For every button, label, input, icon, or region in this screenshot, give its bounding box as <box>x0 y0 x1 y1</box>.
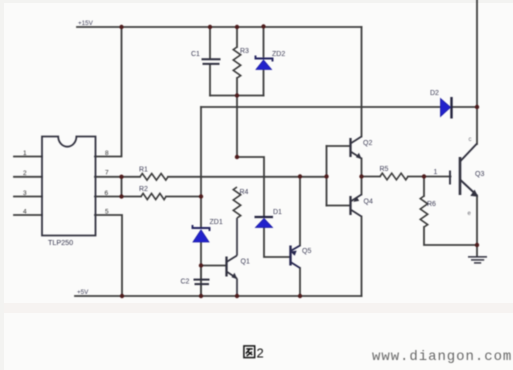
svg-text:R1: R1 <box>139 167 148 174</box>
svg-text:www.diangon.com: www.diangon.com <box>372 349 512 365</box>
svg-text:C2: C2 <box>181 279 190 286</box>
svg-text:6: 6 <box>105 190 109 197</box>
svg-text:R5: R5 <box>380 166 389 173</box>
svg-text:5: 5 <box>105 209 109 216</box>
svg-text:C1: C1 <box>191 51 200 58</box>
svg-text:3: 3 <box>23 190 27 197</box>
svg-text:TLP250: TLP250 <box>48 238 73 247</box>
svg-text:8: 8 <box>105 150 109 157</box>
svg-text:2: 2 <box>257 346 264 361</box>
svg-text:4: 4 <box>23 209 27 216</box>
svg-text:2: 2 <box>23 170 27 177</box>
svg-text:Q1: Q1 <box>241 259 250 266</box>
svg-text:Q5: Q5 <box>302 248 311 255</box>
svg-text:+5V: +5V <box>77 289 89 296</box>
svg-text:Q4: Q4 <box>364 199 373 206</box>
svg-text:ZD1: ZD1 <box>210 219 223 226</box>
svg-text:Q3: Q3 <box>475 171 484 178</box>
svg-text:Q2: Q2 <box>363 140 372 147</box>
svg-text:R3: R3 <box>240 48 249 55</box>
svg-text:R4: R4 <box>240 189 249 196</box>
svg-text:ZD2: ZD2 <box>272 51 285 58</box>
svg-text:R6: R6 <box>427 201 436 208</box>
svg-text:e: e <box>468 211 472 217</box>
svg-text:+15V: +15V <box>78 20 94 27</box>
svg-text:R2: R2 <box>139 186 148 193</box>
svg-text:7: 7 <box>105 170 109 177</box>
svg-text:1: 1 <box>23 150 27 157</box>
svg-text:c: c <box>469 137 472 143</box>
svg-text:D2: D2 <box>430 90 439 97</box>
svg-text:1: 1 <box>434 169 438 176</box>
svg-text:D1: D1 <box>273 209 282 216</box>
